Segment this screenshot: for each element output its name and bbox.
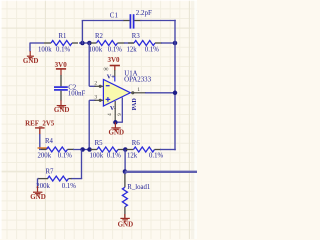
op-amp U1A OPA2333 <box>114 70 116 77</box>
svg-text:∞: ∞ <box>104 66 109 73</box>
svg-text:12k: 12k <box>127 152 138 159</box>
capacitor C1 <box>124 20 130 22</box>
pin 4 V- and PAD <box>114 101 116 122</box>
pin 1 (output) <box>131 92 146 94</box>
wire (output bus) <box>125 171 197 173</box>
wire <box>38 178 39 180</box>
node C <box>123 147 128 152</box>
svg-text:C1: C1 <box>110 11 119 19</box>
capacitor C2 <box>60 75 62 86</box>
svg-text:0.1%: 0.1% <box>145 46 159 53</box>
svg-text:GND: GND <box>118 220 134 228</box>
resistor R1 <box>44 42 51 44</box>
node: R1/R2/C1 junction <box>80 41 85 46</box>
svg-text:V+: V+ <box>107 73 115 80</box>
svg-text:3V0: 3V0 <box>107 56 120 64</box>
ground (R7) <box>37 186 39 192</box>
ground (op-amp) <box>114 122 116 128</box>
svg-text:3: 3 <box>94 94 97 100</box>
svg-text:GND: GND <box>30 193 46 201</box>
wire <box>140 20 176 22</box>
wire <box>81 149 83 178</box>
svg-text:2: 2 <box>94 80 97 86</box>
resistor R_load1 <box>124 172 126 175</box>
svg-text:GND: GND <box>109 129 125 137</box>
svg-text:R5: R5 <box>95 140 104 147</box>
svg-text:100nF: 100nF <box>68 91 86 98</box>
svg-text:1: 1 <box>137 87 140 93</box>
wire <box>39 134 41 150</box>
svg-text:12k: 12k <box>127 46 138 53</box>
svg-text:100k: 100k <box>90 152 104 159</box>
wire <box>124 150 126 172</box>
resistor R2 <box>91 42 97 44</box>
svg-text:GND: GND <box>23 57 39 65</box>
svg-text:PAD: PAD <box>131 98 138 111</box>
wire <box>161 42 175 44</box>
ground (R_load1) <box>124 214 126 218</box>
svg-text:0.1%: 0.1% <box>108 46 122 53</box>
svg-text:200k: 200k <box>38 152 52 159</box>
wire <box>124 42 134 44</box>
ground (C2) <box>60 100 62 105</box>
svg-text:GND: GND <box>54 106 70 114</box>
wire <box>160 149 176 151</box>
node A <box>80 147 85 152</box>
node: output junction <box>173 91 178 96</box>
svg-text:R2: R2 <box>95 33 104 40</box>
svg-text:R1: R1 <box>59 33 67 40</box>
resistor R7 <box>69 178 72 180</box>
svg-text:R6: R6 <box>132 140 141 147</box>
node: pin2 branch junction <box>87 41 92 46</box>
svg-text:0.1%: 0.1% <box>58 152 72 159</box>
svg-text:R_load1: R_load1 <box>127 184 150 191</box>
pin 3 (non-inverting input) <box>88 100 90 150</box>
node: feedback/R3 junction <box>173 41 178 46</box>
wire <box>81 21 83 45</box>
svg-text:0.1%: 0.1% <box>107 152 121 159</box>
resistor R3 <box>128 42 134 44</box>
svg-text:0.1%: 0.1% <box>56 46 70 53</box>
wire <box>30 42 44 44</box>
wire <box>73 149 91 151</box>
svg-text:2.2pF: 2.2pF <box>136 9 152 17</box>
resistor R4 <box>41 148 47 150</box>
svg-text:R7: R7 <box>46 169 55 176</box>
wire <box>79 42 91 44</box>
svg-text:0.1%: 0.1% <box>62 183 76 190</box>
power 3V0 (op-amp V+) <box>110 65 120 67</box>
node <box>113 120 118 125</box>
svg-text:OPA2333: OPA2333 <box>124 77 151 84</box>
svg-text:3V0: 3V0 <box>55 61 68 69</box>
svg-text:100k: 100k <box>38 46 52 53</box>
svg-text:R4: R4 <box>45 138 54 145</box>
pin 2 (inverting input) <box>88 43 90 87</box>
node B <box>87 147 92 152</box>
node D <box>123 169 128 174</box>
resistor R5 <box>91 149 98 151</box>
svg-text:100k: 100k <box>89 46 103 53</box>
svg-text:0.1%: 0.1% <box>149 152 163 159</box>
ground <box>29 43 31 52</box>
resistor R6 <box>126 149 134 151</box>
svg-text:200k: 200k <box>36 183 50 190</box>
svg-text:REF_2V5: REF_2V5 <box>25 120 55 127</box>
svg-text:R3: R3 <box>132 33 141 40</box>
power 3V0 (C2) <box>56 68 66 70</box>
compile mark <box>38 147 49 149</box>
